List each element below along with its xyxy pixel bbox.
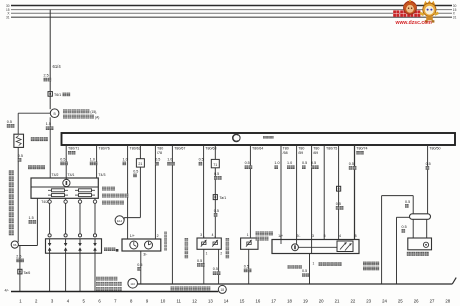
svg-text:0.5: 0.5	[405, 200, 410, 204]
svg-text:2.5: 2.5	[16, 254, 21, 258]
svg-text:/59: /59	[298, 151, 303, 155]
svg-text:www.dzsc.com: www.dzsc.com	[395, 20, 433, 26]
svg-text:4/-: 4/-	[5, 288, 10, 292]
svg-text:0.5: 0.5	[302, 269, 307, 273]
svg-text:T4/1: T4/1	[68, 173, 75, 177]
svg-text:T80: T80	[283, 146, 289, 150]
svg-text:1.5: 1.5	[29, 216, 34, 220]
svg-text:1: 1	[313, 261, 315, 265]
svg-text:T80/74: T80/74	[356, 146, 367, 150]
svg-text:0.5: 0.5	[426, 162, 431, 166]
svg-text:0.5: 0.5	[349, 162, 354, 166]
svg-text:0.5: 0.5	[137, 263, 142, 267]
svg-text:14: 14	[224, 299, 229, 304]
svg-text:T4/2: T4/2	[52, 173, 59, 177]
svg-text:/69: /69	[313, 151, 318, 155]
svg-text:T80/64: T80/64	[252, 146, 263, 150]
svg-text:0.5: 0.5	[155, 158, 160, 162]
svg-text:25: 25	[398, 299, 403, 304]
svg-text:4: 4	[212, 233, 214, 237]
svg-text:1: 1	[247, 233, 249, 237]
svg-text:0.5: 0.5	[60, 157, 65, 161]
svg-text:T80/76: T80/76	[99, 146, 110, 150]
svg-text:24: 24	[382, 299, 387, 304]
svg-text:11: 11	[176, 299, 181, 304]
svg-text:1.0: 1.0	[287, 161, 292, 165]
svg-text:0.5: 0.5	[214, 209, 219, 213]
svg-text:5: 5	[324, 234, 326, 238]
svg-text:0.5: 0.5	[244, 264, 249, 268]
svg-text:21: 21	[138, 162, 142, 166]
svg-text:4: 4	[339, 234, 341, 238]
svg-text:1.0: 1.0	[123, 157, 128, 161]
svg-text:27: 27	[430, 299, 435, 304]
svg-text:2.5: 2.5	[44, 74, 49, 78]
svg-text:Ta/6: Ta/6	[24, 271, 31, 275]
svg-text:3: 3	[200, 233, 202, 237]
svg-text:0.5: 0.5	[197, 259, 202, 263]
svg-text:18: 18	[287, 299, 292, 304]
svg-text:(A): (A)	[95, 115, 99, 119]
svg-text:T80: T80	[157, 146, 163, 150]
svg-text:0.5: 0.5	[18, 154, 23, 158]
svg-text:28: 28	[445, 299, 450, 304]
svg-text:1/+: 1/+	[130, 234, 135, 238]
svg-text:13: 13	[208, 299, 213, 304]
svg-text:0.5: 0.5	[213, 267, 218, 271]
svg-text:/58: /58	[283, 151, 288, 155]
svg-text:10: 10	[160, 299, 165, 304]
svg-text:1.0: 1.0	[274, 161, 279, 165]
svg-text:T80/71: T80/71	[68, 146, 79, 150]
svg-text:0.5: 0.5	[133, 169, 138, 173]
svg-text:0.5: 0.5	[245, 161, 250, 165]
svg-text:21: 21	[335, 299, 340, 304]
svg-text:15: 15	[240, 299, 245, 304]
svg-text:T80/62: T80/62	[130, 146, 141, 150]
svg-text:31: 31	[453, 15, 457, 19]
svg-text:/78: /78	[157, 151, 162, 155]
svg-text:0.5: 0.5	[402, 225, 407, 229]
svg-text:110: 110	[130, 282, 135, 286]
svg-text:1.0: 1.0	[167, 158, 172, 162]
svg-text:17: 17	[271, 299, 276, 304]
svg-text:19: 19	[303, 299, 308, 304]
svg-text:1: 1	[206, 252, 208, 256]
svg-text:T80/75: T80/75	[326, 146, 337, 150]
svg-text:0.5: 0.5	[214, 172, 219, 176]
svg-text:71: 71	[213, 163, 217, 167]
svg-text:20: 20	[319, 299, 324, 304]
svg-text:2: 2	[157, 234, 159, 238]
svg-text:1.0: 1.0	[90, 157, 95, 161]
svg-text:8: 8	[355, 234, 357, 238]
svg-text:0.5: 0.5	[199, 158, 204, 162]
svg-text:0.5: 0.5	[336, 202, 341, 206]
svg-text:66: 66	[13, 243, 17, 247]
svg-text:T6/1: T6/1	[54, 93, 61, 97]
svg-text:0.5: 0.5	[302, 161, 307, 165]
svg-text:(15),: (15),	[90, 110, 97, 114]
svg-text:Ta/1: Ta/1	[220, 196, 227, 200]
svg-text:T4/3: T4/3	[98, 173, 105, 177]
svg-text:T4/2: T4/2	[41, 200, 48, 204]
svg-text:2: 2	[220, 252, 222, 256]
svg-text:23: 23	[366, 299, 371, 304]
svg-text:T80/63: T80/63	[205, 146, 216, 150]
svg-text:1/+: 1/+	[278, 234, 283, 238]
svg-text:22: 22	[350, 299, 355, 304]
svg-text:T80: T80	[313, 146, 319, 150]
svg-text:26: 26	[414, 299, 419, 304]
svg-text:T80: T80	[298, 146, 304, 150]
svg-text:12: 12	[192, 299, 197, 304]
svg-text:T80/67: T80/67	[174, 146, 185, 150]
svg-text:16: 16	[255, 299, 260, 304]
svg-text:31: 31	[6, 15, 10, 19]
svg-text:1.5: 1.5	[46, 122, 51, 126]
svg-text:E14: E14	[117, 219, 123, 223]
svg-text:T80/50: T80/50	[429, 146, 440, 150]
svg-text:61/4: 61/4	[53, 64, 62, 69]
svg-text:0.5: 0.5	[7, 120, 12, 124]
svg-text:3: 3	[312, 234, 314, 238]
svg-text:0.5: 0.5	[311, 161, 316, 165]
svg-text:18: 18	[221, 288, 225, 292]
